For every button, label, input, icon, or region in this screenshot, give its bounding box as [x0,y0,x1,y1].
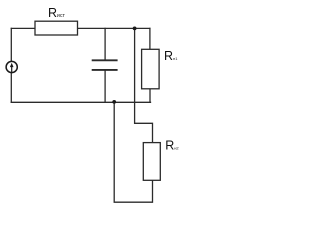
resistor R_n1 [142,49,160,89]
wire left vertical upper [10,28,12,61]
wire top horizontal [11,27,150,29]
current source I1 [6,61,17,72]
node junction bottom [112,100,116,104]
node junction top [133,27,137,31]
wire staircase to R_n2 top [135,28,153,142]
wire R_n1 top lead [149,28,151,49]
resistor R_ist [35,21,78,35]
wire left vertical lower [10,73,12,103]
wire capacitor top lead [104,28,106,60]
wire capacitor bottom lead [104,70,106,102]
wire R_n1 bottom lead [149,89,151,103]
wire bottom horizontal [11,101,150,103]
resistor R_n2 [143,143,160,181]
capacitor C1 [92,60,118,70]
wire lower loop to R_n2 bottom [114,102,152,202]
